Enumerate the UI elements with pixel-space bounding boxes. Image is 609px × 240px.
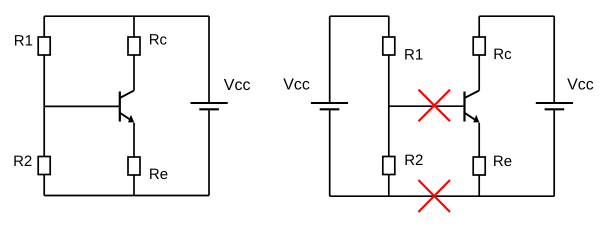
svg-text:Re: Re bbox=[149, 166, 168, 183]
resistor Rc (left circuit) bbox=[128, 37, 140, 55]
wire right vertical lower from battery (left circuit) bbox=[208, 109, 210, 195]
transistor Q1 emitter stroke bbox=[120, 113, 131, 120]
battery Vcc (left circuit) short plate bbox=[199, 108, 219, 110]
battery Vcc right (right circuit) short plate bbox=[545, 108, 565, 110]
X mark on bottom wire (right circuit) bbox=[418, 180, 450, 212]
wire top right loop (right circuit) bbox=[479, 15, 554, 17]
wire Re branch lower (right circuit) bbox=[478, 123, 480, 196]
wire right battery vertical upper (right circuit) bbox=[553, 16, 555, 103]
transistor Q2 collector stroke bbox=[465, 91, 480, 99]
svg-text:Vcc: Vcc bbox=[567, 77, 594, 94]
wire base (left circuit) bbox=[44, 105, 120, 107]
transistor Q2 emitter stroke bbox=[465, 113, 476, 120]
wire top left loop (right circuit) bbox=[330, 15, 389, 17]
transistor Q2 emitter arrowhead bbox=[473, 115, 479, 123]
wire middle branch upper Rc to collector (left circuit) bbox=[133, 16, 135, 90]
wire Rc branch upper (right circuit) bbox=[478, 16, 480, 90]
svg-text:R1: R1 bbox=[404, 46, 423, 63]
wire left battery vertical lower (right circuit) bbox=[329, 109, 331, 196]
wire left vertical (left circuit) bbox=[43, 16, 45, 195]
transistor Q2 base bar bbox=[463, 92, 465, 122]
transistor Q1 emitter arrowhead bbox=[128, 115, 134, 123]
wire middle branch lower emitter to bottom (left circuit) bbox=[133, 123, 135, 196]
wire left battery vertical upper (right circuit) bbox=[329, 16, 331, 103]
transistor Q1 base bar bbox=[119, 92, 121, 122]
svg-text:Vcc: Vcc bbox=[224, 77, 251, 94]
X mark on base wire (right circuit) bbox=[419, 90, 451, 122]
wire top (left circuit) bbox=[44, 15, 209, 17]
svg-text:R1: R1 bbox=[14, 32, 33, 49]
wire base with X (right circuit) bbox=[389, 105, 465, 107]
wire right battery vertical lower (right circuit) bbox=[553, 109, 555, 196]
battery Vcc right (right circuit) long plate bbox=[536, 102, 573, 104]
resistor R1 (right circuit) bbox=[383, 37, 395, 55]
svg-text:R2: R2 bbox=[13, 153, 32, 170]
resistor R2 (left circuit) bbox=[38, 157, 50, 175]
resistor Re (right circuit) bbox=[473, 157, 485, 175]
svg-text:Vcc: Vcc bbox=[283, 77, 310, 94]
resistor R1 (left circuit) bbox=[38, 37, 50, 55]
svg-text:R2: R2 bbox=[404, 152, 423, 169]
svg-text:Rc: Rc bbox=[149, 32, 168, 49]
battery Vcc left (right circuit) long plate bbox=[311, 102, 348, 104]
wire right vertical upper to battery (left circuit) bbox=[208, 16, 210, 103]
resistor R2 (right circuit) bbox=[383, 157, 395, 175]
svg-text:Rc: Rc bbox=[493, 46, 512, 63]
resistor Rc (right circuit) bbox=[473, 37, 485, 55]
transistor Q1 collector stroke bbox=[120, 91, 134, 99]
wire bottom with X (right circuit) bbox=[330, 195, 555, 197]
wire R1-R2 branch vertical (right circuit) bbox=[388, 16, 390, 196]
battery Vcc (left circuit) long plate bbox=[191, 102, 228, 104]
wire bottom (left circuit) bbox=[44, 195, 209, 197]
battery Vcc left (right circuit) short plate bbox=[320, 108, 340, 110]
resistor Re (left circuit) bbox=[128, 157, 140, 175]
svg-text:Re: Re bbox=[493, 153, 512, 170]
